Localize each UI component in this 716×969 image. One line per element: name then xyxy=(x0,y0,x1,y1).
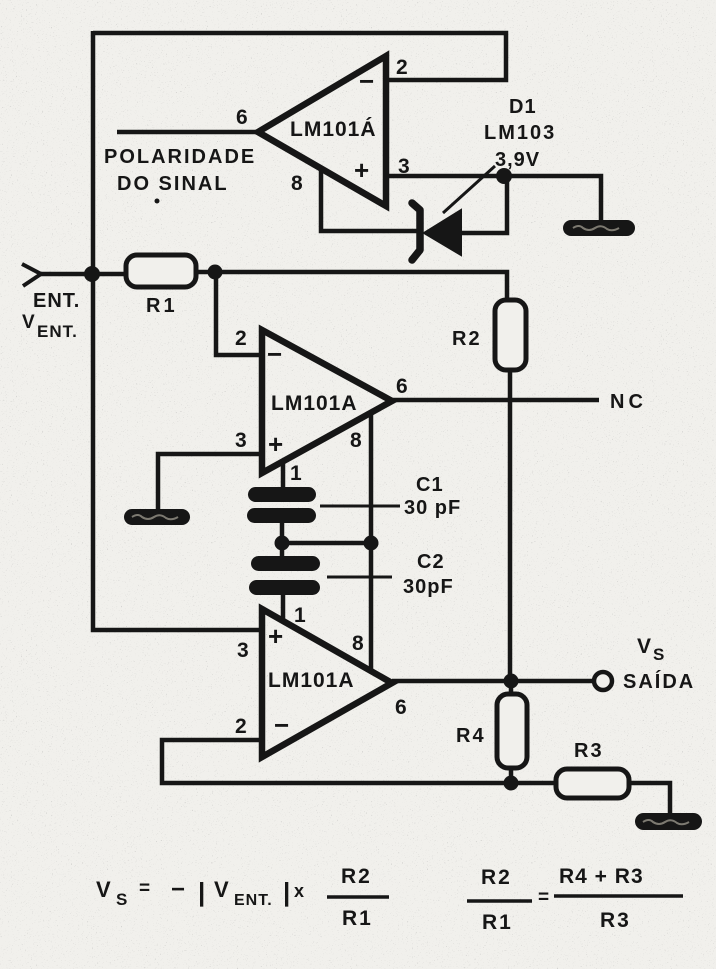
wire pin 6 of U2 to NC xyxy=(392,398,599,403)
svg-text:3: 3 xyxy=(235,429,247,452)
svg-text:DO SINAL: DO SINAL xyxy=(117,173,229,195)
node output junction xyxy=(504,674,519,689)
svg-text:R1: R1 xyxy=(342,907,373,930)
resistor R3 xyxy=(556,740,629,798)
capacitor C2 xyxy=(249,551,454,598)
wire pin 6 input of U1 xyxy=(117,130,258,135)
svg-text:8: 8 xyxy=(291,172,303,195)
wire top feedback loop from pin 2 to left bus xyxy=(93,33,506,80)
svg-text:3: 3 xyxy=(237,639,249,662)
svg-text:V: V xyxy=(22,312,35,333)
ground G1 top right xyxy=(563,220,635,236)
svg-text:ENT.: ENT. xyxy=(234,892,273,909)
svg-text:C1: C1 xyxy=(416,474,444,496)
leader line to D1 xyxy=(443,166,495,213)
svg-text:POLARIDADE: POLARIDADE xyxy=(104,146,256,168)
svg-text:x: x xyxy=(294,881,304,901)
leader line to C2 value xyxy=(327,576,392,579)
resistor R1 xyxy=(126,255,196,317)
input chevron xyxy=(22,264,41,286)
wire pin 2 feedback of U3 xyxy=(162,740,556,783)
svg-text:6: 6 xyxy=(396,375,408,398)
svg-text:LM101A: LM101A xyxy=(271,392,358,415)
svg-text:LM103: LM103 xyxy=(484,122,556,144)
label POLARIDADE DO SINAL xyxy=(104,146,256,204)
svg-text:8: 8 xyxy=(350,429,362,452)
svg-text:3: 3 xyxy=(398,155,410,178)
svg-text:30 pF: 30 pF xyxy=(404,497,461,519)
op-amp U3 LM101A (bottom, points right) xyxy=(235,604,407,757)
svg-text:R2: R2 xyxy=(481,866,512,889)
svg-text:NC: NC xyxy=(610,391,647,413)
svg-text:6: 6 xyxy=(236,106,248,129)
wire C1 C2 midpoint stub xyxy=(280,522,285,558)
svg-text:V: V xyxy=(637,635,651,658)
svg-text:R1: R1 xyxy=(146,295,178,317)
svg-text:ENT.: ENT. xyxy=(37,322,78,341)
svg-text:|: | xyxy=(198,877,205,907)
svg-text:3,9V: 3,9V xyxy=(495,149,540,171)
resistor R4 xyxy=(456,694,527,768)
ground G3 bottom right xyxy=(635,813,702,830)
wire input to R1 xyxy=(40,272,126,277)
svg-text:R4 + R3: R4 + R3 xyxy=(559,865,644,888)
wire pin 3 of U1 to ground xyxy=(386,176,601,220)
svg-text:R3: R3 xyxy=(600,909,631,932)
svg-text:R3: R3 xyxy=(574,740,604,762)
svg-text:R1: R1 xyxy=(482,911,513,934)
svg-text:LM101A: LM101A xyxy=(268,669,355,692)
svg-text:2: 2 xyxy=(235,715,247,738)
wire R3 to ground xyxy=(629,783,670,813)
svg-text:2: 2 xyxy=(235,327,247,350)
wire R2 bottom vertical xyxy=(508,370,513,681)
svg-text:1: 1 xyxy=(294,604,306,627)
svg-text:S: S xyxy=(653,645,664,664)
wire C2 to pin 1 stub of U3 xyxy=(281,594,286,622)
node R1 right junction xyxy=(208,265,223,280)
svg-text:R4: R4 xyxy=(456,725,486,747)
svg-text:R2: R2 xyxy=(452,328,482,350)
svg-text:6: 6 xyxy=(395,696,407,719)
svg-text:|: | xyxy=(283,877,290,907)
label VS SAIDA xyxy=(623,635,695,693)
diode D1 zener xyxy=(412,96,556,260)
svg-text:R2: R2 xyxy=(341,865,372,888)
node R4-R3 junction xyxy=(504,776,519,791)
wire pin 1 stub of U2 to C1 xyxy=(281,462,286,489)
node diode pin3 junction xyxy=(496,168,512,184)
svg-text:−: − xyxy=(359,66,374,96)
label ENT. V_ENT. xyxy=(22,290,80,341)
op-amp U2 LM101A (middle, points right) xyxy=(235,327,408,485)
wire R4 top stub xyxy=(509,681,514,694)
svg-text:=: = xyxy=(538,887,549,908)
svg-text:V: V xyxy=(96,877,111,902)
svg-text:SAÍDA: SAÍDA xyxy=(623,670,695,693)
leader line to C1 value xyxy=(320,505,400,508)
resistor R2 xyxy=(452,300,526,370)
wire diode anode up to pin3 node xyxy=(459,178,507,233)
svg-text:S: S xyxy=(116,890,127,909)
wire left vertical bus xyxy=(93,31,261,630)
svg-text:−: − xyxy=(274,710,289,740)
node C1-C2 midpoint junction xyxy=(275,536,290,551)
wire R4 bottom stub xyxy=(509,768,514,783)
svg-text:V: V xyxy=(214,877,229,902)
svg-text:−: − xyxy=(171,876,185,903)
svg-text:1: 1 xyxy=(290,462,302,485)
wire output of U3 to terminal xyxy=(392,679,595,684)
svg-text:8: 8 xyxy=(352,632,364,655)
wire pin 8 of U1 to diode cathode xyxy=(321,168,417,231)
op-amp U1 LM101A (points left) xyxy=(236,56,410,206)
svg-text:=: = xyxy=(139,878,150,899)
svg-text:30pF: 30pF xyxy=(403,576,454,598)
svg-text:+: + xyxy=(354,155,369,185)
output terminal circle xyxy=(594,672,612,690)
wire midpoint to pin8 bus xyxy=(282,541,371,546)
wire R1 to R2 xyxy=(196,272,507,300)
formula R2/R1 = (R4+R3)/R3 xyxy=(467,865,683,934)
node midpoint bus junction xyxy=(364,536,379,551)
formula VS = -|VENT.| x R2/R1 xyxy=(96,865,389,930)
wire pin 2 tap of U2 xyxy=(216,274,262,355)
svg-text:+: + xyxy=(268,621,283,651)
svg-text:LM101Á: LM101Á xyxy=(290,118,377,141)
ground G2 middle left xyxy=(124,509,190,525)
svg-text:C2: C2 xyxy=(417,551,445,573)
svg-text:2: 2 xyxy=(396,56,408,79)
svg-text:D1: D1 xyxy=(509,96,537,118)
svg-text:−: − xyxy=(267,339,282,369)
wire pin 8 bus between U2 and U3 xyxy=(369,413,374,669)
node input junction xyxy=(84,266,100,282)
capacitor C1 xyxy=(247,474,461,523)
svg-text:+: + xyxy=(268,429,283,459)
svg-text:ENT.: ENT. xyxy=(33,290,80,312)
wire pin 3 of U2 to ground xyxy=(158,454,262,510)
